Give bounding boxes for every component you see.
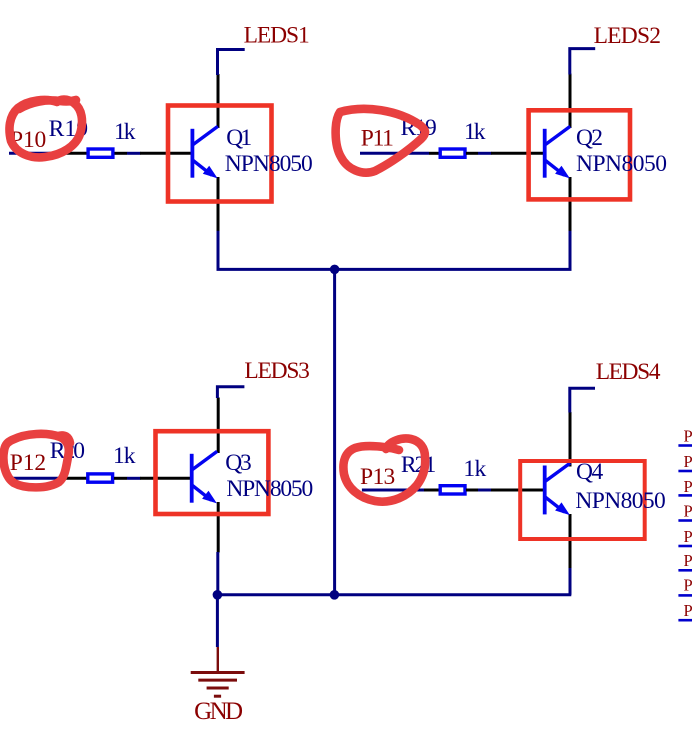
wire net P11 to R19b: [360, 152, 429, 155]
svg-text:P1: P1: [684, 601, 692, 620]
svg-text:1k: 1k: [464, 119, 486, 145]
wire R19 to Q1 base: [127, 152, 141, 155]
highlight box around Q2: [529, 110, 630, 199]
svg-text:1k: 1k: [114, 119, 136, 145]
transistor Q1 symbol: [191, 126, 218, 178]
junction node bottom left: [213, 590, 223, 600]
pin Q1 collector: [217, 74, 220, 128]
pin Q4 collector: [569, 412, 572, 467]
wire top rail: [217, 268, 572, 271]
resistor R19b lead left: [429, 152, 441, 155]
resistor R19b body (1k): [440, 149, 465, 157]
ground GND symbol: [191, 647, 245, 696]
transistor Q4 symbol: [543, 463, 570, 515]
svg-text:P1: P1: [684, 576, 692, 595]
highlight box around Q4: [520, 461, 645, 539]
resistor R21 lead right: [466, 489, 478, 492]
svg-text:P1: P1: [684, 427, 692, 446]
svg-text:LEDS4: LEDS4: [596, 359, 661, 385]
pin Q2 base: [491, 152, 544, 155]
svg-text:1k: 1k: [113, 443, 136, 469]
resistor R19 lead right: [115, 152, 128, 155]
resistor R20 lead left: [66, 477, 88, 480]
wire Q4 emitter down: [569, 568, 572, 595]
transistor Q3 symbol: [190, 451, 217, 503]
wire Q3 emitter down: [216, 552, 219, 595]
svg-text:GND: GND: [194, 698, 243, 725]
wire net P10 to R19: [9, 152, 66, 155]
svg-text:P1: P1: [684, 551, 692, 570]
resistor R19 body (1k): [88, 149, 113, 157]
wire R19b to Q2 base: [478, 152, 492, 155]
svg-text:LEDS1: LEDS1: [244, 23, 310, 49]
annotation circle around P12: [3, 434, 70, 488]
svg-text:LEDS3: LEDS3: [244, 358, 310, 384]
resistor R21 body (1k): [440, 486, 465, 494]
svg-text:P1: P1: [684, 502, 692, 521]
pin Q4 emitter: [569, 514, 572, 568]
wire net LEDS3: [217, 387, 244, 398]
junction node bottom middle: [330, 590, 340, 600]
wire net LEDS2: [570, 49, 595, 75]
resistor R20 lead right: [114, 477, 127, 480]
resistor R19b lead right: [466, 152, 478, 155]
wire net P13 to R21: [362, 489, 424, 492]
annotation circle around P13: [343, 438, 425, 501]
svg-text:1k: 1k: [463, 456, 486, 482]
pin Q4 base: [491, 489, 544, 492]
pin list underlines cut at right edge: [678, 446, 692, 621]
pin Q3 base: [140, 477, 192, 480]
svg-text:Q4: Q4: [576, 459, 604, 485]
pin Q3 emitter: [217, 502, 220, 553]
svg-text:P1: P1: [684, 452, 692, 471]
pin Q2 emitter: [569, 177, 572, 232]
svg-text:NPN8050: NPN8050: [226, 476, 313, 502]
svg-text:Q3: Q3: [225, 450, 252, 476]
svg-text:Q2: Q2: [576, 125, 603, 151]
svg-text:P1: P1: [684, 477, 692, 496]
wire R21 to Q4 base: [478, 489, 492, 492]
highlight box around Q3: [156, 431, 269, 514]
svg-text:NPN8050: NPN8050: [225, 151, 313, 177]
wire net LEDS4: [570, 388, 595, 412]
pin list labels cut at right edge: [684, 427, 692, 620]
svg-text:P13: P13: [360, 464, 395, 490]
svg-text:P1: P1: [684, 527, 692, 546]
highlight box around Q1: [168, 106, 272, 202]
wire R20 to Q3 base: [127, 477, 141, 480]
svg-text:NPN8050: NPN8050: [575, 488, 665, 514]
svg-text:P12: P12: [10, 450, 46, 476]
wire middle trunk: [333, 269, 336, 594]
annotation circle around P10: [9, 100, 82, 158]
svg-text:LEDS2: LEDS2: [594, 23, 661, 49]
wire net P12 to R20: [13, 477, 66, 480]
pin Q2 collector: [569, 74, 572, 129]
svg-text:P11: P11: [361, 125, 394, 151]
junction node top rail: [330, 265, 340, 275]
svg-text:Q1: Q1: [226, 125, 252, 151]
pin Q3 collector: [217, 398, 220, 454]
pin Q1 base: [140, 152, 192, 155]
resistor R20 body (1k): [88, 474, 113, 482]
resistor R19 lead left: [66, 152, 89, 155]
annotation circle around P11: [336, 109, 425, 173]
pin Q1 emitter: [217, 177, 220, 232]
svg-text:NPN8050: NPN8050: [576, 151, 667, 177]
resistor R21 lead left: [424, 489, 441, 492]
wire Q2 emitter down: [569, 231, 572, 270]
wire net LEDS1: [218, 50, 245, 76]
wire Q1 emitter down: [217, 231, 220, 270]
transistor Q2 symbol: [543, 126, 570, 178]
wire to ground: [216, 595, 219, 647]
wire bottom rail: [217, 593, 571, 596]
